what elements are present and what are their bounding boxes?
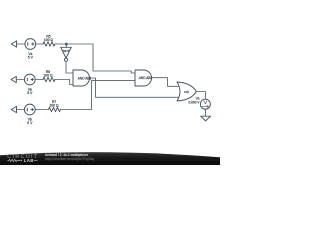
wire bbox=[90, 78, 179, 97]
resistor R5 bbox=[43, 42, 55, 46]
wire bbox=[55, 80, 73, 85]
svg-text:OR: OR bbox=[184, 90, 189, 94]
svg-text:5 V: 5 V bbox=[27, 91, 33, 95]
AND gate 1 bbox=[73, 70, 90, 86]
voltage source Vb bbox=[24, 104, 35, 115]
svg-text:AND AB2: AND AB2 bbox=[139, 76, 153, 80]
input terminal row 3 bbox=[11, 106, 16, 112]
wire bbox=[60, 81, 135, 110]
ground bbox=[201, 116, 211, 121]
svg-text:LAB: LAB bbox=[24, 158, 34, 163]
wire bbox=[55, 43, 93, 45]
wire bbox=[204, 109, 206, 116]
input terminal row 2 bbox=[11, 76, 16, 82]
svg-text:0 V: 0 V bbox=[27, 121, 33, 125]
svg-text:100 Ω: 100 Ω bbox=[43, 74, 53, 78]
input terminal row 1 bbox=[11, 41, 16, 47]
resistor R7 bbox=[49, 107, 61, 111]
svg-text:AND AB1: AND AB1 bbox=[78, 76, 92, 80]
wire bbox=[152, 78, 179, 87]
voltmeter Vo bbox=[200, 99, 210, 109]
resistor R6 bbox=[43, 77, 55, 81]
svg-text:NOT: NOT bbox=[63, 49, 70, 53]
wire bbox=[93, 44, 135, 73]
voltage source Vs bbox=[25, 39, 36, 50]
node junction bbox=[65, 43, 67, 45]
wire bbox=[35, 79, 43, 81]
wire bbox=[36, 43, 43, 45]
wire bbox=[17, 109, 25, 111]
svg-text:http://circuitlab.com/c6pw7f7x: http://circuitlab.com/c6pw7f7xp2bq bbox=[45, 157, 94, 161]
OR gate bbox=[177, 82, 196, 101]
wire bbox=[66, 61, 73, 73]
wire bbox=[16, 79, 24, 81]
voltage source Va bbox=[24, 74, 35, 85]
svg-text:100 Ω: 100 Ω bbox=[49, 104, 59, 108]
wire bbox=[196, 92, 205, 100]
AND gate 2 bbox=[135, 70, 152, 86]
wire bbox=[35, 109, 48, 111]
NOT gate bbox=[65, 44, 67, 47]
wire bbox=[17, 43, 25, 45]
svg-text:0.000 V: 0.000 V bbox=[189, 101, 201, 105]
svg-text:100 Ω: 100 Ω bbox=[44, 38, 54, 42]
svg-text:5 V: 5 V bbox=[28, 56, 34, 60]
